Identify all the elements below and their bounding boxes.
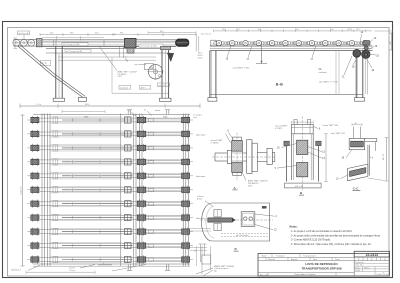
view2 drive end cluster dark: [353, 49, 361, 57]
detail B top dim: [292, 121, 314, 123]
view1 mid sprocket cluster (dark): [125, 38, 137, 47]
revision cells row: [354, 260, 389, 262]
detail CC top hatched bar: [351, 141, 364, 147]
plan bottom leader: [112, 265, 146, 272]
svg-text:7,5 p.u.: 7,5 p.u.: [69, 270, 76, 272]
title small cells row2: [265, 257, 267, 260]
roller circle 2: [21, 39, 28, 46]
svg-text:lado motor: lado motor: [196, 133, 206, 136]
roller coupling 5: [278, 42, 280, 45]
view1 brace foot: [78, 97, 86, 101]
view1 boxed dimension labels: [119, 86, 131, 90]
svg-text:Notas:: Notas:: [290, 224, 298, 228]
view2 right side vertical dimension: [391, 33, 393, 50]
plan top small dim: [62, 111, 105, 113]
roller 6: [283, 40, 288, 45]
plan top foot stubs: [127, 110, 129, 115]
detail A bottom cap: [233, 172, 242, 175]
detail D axis centerline: [200, 219, 273, 221]
plan roller row 3: [27, 144, 193, 152]
roller 12: [363, 40, 368, 45]
plan roller row 4: [27, 158, 193, 166]
roller coupling 8: [318, 42, 320, 45]
title block outline: [258, 254, 390, 277]
svg-text:via conforme: via conforme: [135, 64, 147, 66]
detail D washer top: [214, 210, 221, 217]
detail B bolt right head: [316, 141, 321, 145]
detail CC lower angled piece: [348, 164, 368, 181]
plan right rail verticals: [132, 114, 134, 267]
svg-text:Verif.: Verif.: [356, 270, 361, 272]
svg-text:1/PÇ: 1/PÇ: [248, 185, 253, 187]
view1 brace label box: [41, 61, 51, 66]
plan roller row 2: [27, 130, 193, 138]
svg-text:Giro (MET) “nº” 0700: Giro (MET) “nº” 0700: [319, 81, 339, 84]
svg-text:104 5: 104 5: [198, 58, 204, 60]
plan roller row 9: [27, 228, 193, 236]
plan roller row 5: [27, 172, 193, 180]
detail A top cap: [233, 137, 242, 141]
svg-text:3- Correas ABNT/E 1123 29/7/8: 3- Correas ABNT/E 1123 29/7/8 aplic.: [291, 239, 331, 242]
plan bottom under-dim line: [26, 271, 95, 273]
plan roller row 11: [27, 255, 193, 263]
roller 2: [230, 40, 235, 45]
plan bottom edge: [33, 263, 190, 265]
view1 mid bracket lines: [119, 46, 121, 57]
view1 diagonal brace upper: [18, 46, 53, 76]
view1 left bearing block: [37, 39, 43, 47]
roller 7: [296, 40, 301, 45]
roller coupling 1: [225, 42, 227, 45]
view1 right foot: [160, 98, 172, 101]
view2 dim extension verticals: [335, 51, 337, 95]
svg-text:Ao Nivel △: Ao Nivel △: [12, 268, 22, 271]
svg-text:⌀22 × 90: ⌀22 × 90: [295, 185, 304, 188]
plan roller row 10: [27, 242, 193, 250]
detail A centerline horizontal: [212, 156, 276, 158]
svg-text:1.1 m: 1.1 m: [36, 104, 41, 106]
roller 1: [216, 40, 221, 45]
detail CC stem verticals: [352, 127, 354, 139]
detail B top frame: [292, 124, 314, 134]
svg-text:via 562.1: via 562.1: [120, 87, 129, 89]
detail D block with holes: [241, 212, 255, 227]
roller coupling 2: [238, 42, 240, 45]
view1 idler label box top-left: [18, 31, 30, 35]
svg-text:B–B: B–B: [276, 83, 283, 87]
plan roller row 8: [27, 214, 193, 222]
svg-text:lado motor: lado motor: [196, 217, 206, 220]
svg-text:Anel: Anel: [262, 254, 267, 257]
roller coupling 11: [358, 42, 360, 45]
roller 10: [336, 40, 341, 45]
svg-text:Desenho: Desenho: [356, 262, 365, 264]
plan roller row 6: [27, 186, 193, 194]
svg-text:rol. Desv. A: rol. Desv. A: [18, 32, 29, 35]
view1 inner dim line: [112, 92, 168, 94]
svg-text:rol. Transp. sp (W): rol. Transp. sp (W): [140, 46, 157, 48]
plan bottom right dim rect: [202, 255, 211, 264]
view1 left leg: [55, 46, 57, 98]
detail B bolt left head: [284, 141, 289, 145]
roller coupling 6: [291, 42, 293, 45]
view1 left idler bar: [14, 39, 39, 41]
svg-text:1/PÇ: 1/PÇ: [118, 76, 123, 78]
view2 bottom tie stringer: [210, 93, 362, 95]
detail B lower hatched block: [297, 163, 308, 177]
view1 annotation leader diagonal: [99, 46, 117, 70]
detail A centerline vertical: [236, 133, 238, 182]
view1 dark gusset under rail: [167, 53, 173, 61]
rail mid text label: [62, 42, 88, 45]
plan chain rail verticals: [182, 114, 184, 267]
detail D hole 1: [244, 217, 247, 220]
svg-text:rol. Transp. sp (W): rol. Transp. sp (W): [63, 44, 80, 46]
svg-text:lado motor: lado motor: [196, 175, 206, 178]
view2 left foot: [208, 98, 217, 102]
detail A right step: [252, 143, 257, 171]
view1 right edge stacked dim texts: [195, 34, 197, 52]
svg-text:Conforme: Conforme: [21, 185, 23, 195]
detail D outline: [202, 203, 270, 241]
plan bottom foot stubs right: [165, 264, 167, 271]
detail A mid hub: [232, 151, 243, 163]
view1 right roller cylinder (dark): [176, 39, 189, 46]
detail CC main vertical plate: [367, 145, 369, 176]
svg-text:nº 43210: nº 43210: [211, 141, 220, 144]
detail CC top box: [349, 138, 365, 149]
title block row line 3: [258, 272, 354, 274]
view1 horizontal tie band: [58, 56, 156, 58]
roller 8: [309, 40, 314, 45]
svg-text:Transportador: Transportador: [303, 254, 316, 257]
roller 11: [349, 40, 354, 45]
detail A right shaft: [257, 152, 267, 154]
plan roller row 7: [27, 200, 193, 208]
svg-text:nº 4321: nº 4321: [275, 127, 283, 130]
detail D hatched bolt: [208, 218, 233, 222]
detail B side plates: [291, 134, 293, 180]
svg-text:Des. Nº: Des. Nº: [356, 264, 363, 267]
detail B centerline: [301, 116, 303, 190]
svg-text:até 750 (máx): até 750 (máx): [236, 234, 249, 237]
plan top edge: [33, 114, 190, 116]
detail B bottom box: [285, 183, 322, 188]
plan mid vertical line: [119, 114, 121, 267]
plan bottom right dim verticals: [201, 246, 203, 275]
detail D washer bottom: [214, 223, 221, 230]
svg-text:1 de 1: 1 de 1: [384, 274, 390, 276]
detail D hole 2: [249, 217, 252, 220]
detail A left shaft: [215, 152, 227, 154]
view1 diagonal brace lower: [52, 75, 83, 97]
title right info rows: [354, 263, 389, 265]
view1 leg cap hatched: [161, 46, 171, 49]
title block row line 1: [258, 256, 354, 258]
plan bottom foot stubs left: [127, 264, 129, 271]
roller 5: [269, 40, 274, 45]
detail A end disc: [267, 149, 272, 165]
view2 right dim ticks above: [374, 30, 393, 32]
view1 vertical joint lines: [53, 40, 55, 47]
detail A right flange tall: [247, 140, 252, 174]
view2 left end stop plate: [211, 40, 217, 46]
detail B bolt left shaft: [286, 146, 288, 182]
detail B upper hatched block: [297, 140, 308, 154]
svg-text:469 T: 469 T: [141, 87, 147, 89]
view2 right leg: [355, 51, 357, 98]
plan bottom right extra lines: [190, 228, 211, 230]
roller coupling 3: [251, 42, 253, 45]
svg-text:2A: 2A: [319, 68, 322, 71]
svg-text:cada (MET) nº 800: cada (MET) nº 800: [233, 67, 251, 70]
detail CC right vertical dim: [386, 138, 388, 181]
detail D left small dim: [200, 244, 202, 262]
roller circle 1: [13, 39, 20, 46]
roller coupling 10: [344, 42, 346, 45]
svg-text:rol. Transp. sp (R): rol. Transp. sp (R): [66, 51, 82, 53]
view1 top dimension line: [40, 34, 196, 36]
svg-text:C–C: C–C: [353, 187, 359, 191]
svg-text:conforme: conforme: [319, 72, 328, 74]
plan left rail verticals: [41, 114, 43, 267]
view1 right leg: [161, 47, 163, 98]
svg-text:Material: Material: [268, 258, 276, 261]
detail A left flange: [227, 150, 231, 163]
roller circle 3: [28, 39, 35, 46]
view2 left leg: [209, 51, 211, 98]
roller coupling 9: [331, 42, 333, 45]
detail A gap shaft: [242, 152, 246, 154]
view2 top dimension line: [214, 30, 373, 32]
view1 rail mid line: [42, 42, 176, 44]
svg-text:tubo “MET” 847: tubo “MET” 847: [331, 132, 346, 135]
detail B top posts: [294, 120, 297, 125]
svg-text:Arquivo: Arquivo: [291, 258, 299, 261]
plan left overall vertical dimension line: [22, 115, 24, 266]
view1 roller face circle with cross: [148, 65, 162, 79]
view2 drive cluster hatch plate: [364, 41, 370, 46]
view1 main rail tube: [42, 39, 176, 41]
svg-text:447.75: 447.75: [383, 153, 385, 160]
view1 bottom overall dimension: [20, 105, 200, 107]
svg-text:via 127.1: via 127.1: [159, 85, 168, 87]
plan roller row 1: [27, 116, 193, 124]
detail A bottom bearing hatched: [232, 163, 243, 173]
svg-text:Folha: Folha: [377, 274, 383, 276]
detail A top bearing hatched: [232, 141, 243, 152]
view1 small vertical dim at left edge: [14, 38, 16, 49]
svg-text:2- As peças terão conformadas: 2- As peças terão conformadas não armell…: [291, 234, 381, 237]
detail B bolt right shaft: [317, 146, 319, 182]
roller 3: [243, 40, 248, 45]
title block vertical left-main: [353, 251, 355, 276]
detail D inner arc: [206, 206, 214, 237]
svg-text:1(W): 1(W): [163, 116, 168, 118]
detail A end stub: [272, 153, 275, 162]
svg-text:(175): (175): [347, 29, 352, 31]
svg-text:p/ lub.: p/ lub.: [197, 199, 203, 201]
detail CC bar end vertical: [375, 142, 377, 151]
detail D small pin mark: [262, 206, 266, 208]
detail CC top dim: [352, 124, 362, 126]
svg-text:Nome: Nome: [364, 267, 370, 269]
view1 left foot: [53, 98, 64, 101]
svg-text:(alt. 171.5): (alt. 171.5): [201, 33, 211, 36]
roller 9: [323, 40, 328, 45]
svg-text:L.C: L.C: [124, 57, 128, 59]
detail D dashed zone: [221, 233, 270, 235]
svg-text:22-2413: 22-2413: [366, 253, 379, 257]
title block row line 2: [258, 260, 354, 262]
svg-text:Esc. 1:10: Esc. 1:10: [260, 274, 269, 276]
view1 dim extension verticals: [56, 36, 58, 41]
roller coupling 4: [264, 42, 266, 45]
svg-text:1- As peças 1 a 23 são encontr: 1- As peças 1 a 23 são encontradas no de…: [291, 230, 353, 233]
svg-text:Transport: Transport: [276, 254, 285, 257]
roller coupling 7: [304, 42, 306, 45]
view1 second rail lower chord: [46, 48, 170, 50]
view1 rail label box right: [139, 44, 163, 47]
view2 hanging arrow detail: [261, 45, 263, 63]
detail CC top-right bar: [365, 139, 377, 142]
svg-text:conf.: conf.: [193, 117, 198, 119]
detail B right vertical dim: [325, 134, 327, 182]
svg-text:lub.: lub.: [214, 271, 218, 273]
svg-text:5(W): 5(W): [84, 116, 89, 118]
roller 4: [256, 40, 261, 45]
view2 drive cluster leader lines: [362, 40, 373, 51]
view2 right foot: [355, 98, 365, 102]
detail CC lower hatched bar: [350, 168, 366, 177]
svg-text:4- Dimensões não ind.: Vale a: 4- Dimensões não ind.: Vale a fase (25),…: [291, 243, 372, 246]
detail D bolt tip: [232, 218, 236, 222]
drawing number box: [354, 251, 389, 257]
view2 rail top chord: [210, 45, 373, 47]
svg-text:Desen fabrica Conjunto: Desen fabrica Conjunto: [295, 273, 317, 276]
svg-text:TRANSPORTADOR SRP 908: TRANSPORTADOR SRP 908: [301, 266, 341, 270]
view2 chain guide verticals: [364, 59, 366, 94]
view1 roller face attach box: [145, 64, 154, 70]
svg-text:LISTA DE REPOSIÇÃO: LISTA DE REPOSIÇÃO: [305, 261, 338, 266]
svg-text:chapa “MET” 849: chapa “MET” 849: [323, 125, 339, 127]
